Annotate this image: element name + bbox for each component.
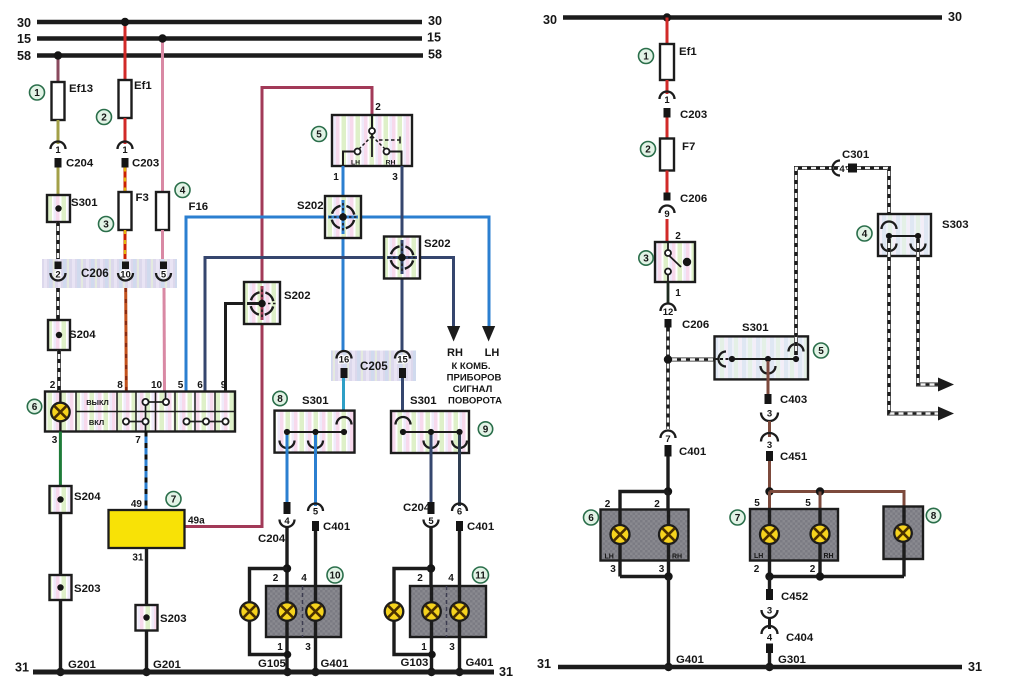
svg-text:5: 5 bbox=[316, 130, 322, 141]
svg-text:2: 2 bbox=[810, 564, 816, 575]
connector C204 pin 1 (arc) bbox=[51, 142, 66, 157]
wire branch to box 6 LH bbox=[620, 492, 668, 510]
turn lamp repeater (box 10) bbox=[306, 602, 325, 621]
svg-text:30: 30 bbox=[17, 16, 31, 30]
connector C451 pin 3 arc bbox=[761, 433, 778, 451]
svg-text:15: 15 bbox=[427, 31, 441, 45]
lamp box 11 bbox=[410, 586, 486, 637]
wire C401 to box 6 (black) bbox=[666, 457, 669, 492]
wire F3 to C206 pin 10 (red-yellow) bbox=[124, 230, 127, 259]
wire S203 to ground G201 (black) bbox=[59, 600, 62, 672]
bus 15 (left diagram) bbox=[17, 31, 441, 47]
junction box 10 pin3 on bus 31 bbox=[311, 668, 319, 676]
svg-text:C203: C203 bbox=[680, 109, 707, 121]
svg-text:3: 3 bbox=[610, 564, 616, 575]
box 7 wire RH bbox=[818, 509, 821, 577]
svg-text:5: 5 bbox=[178, 380, 184, 391]
box 6 wire RH bbox=[667, 510, 670, 577]
bus 31 (right diagram) bbox=[537, 657, 982, 674]
svg-text:C206: C206 bbox=[682, 319, 709, 331]
svg-text:Ef1: Ef1 bbox=[134, 80, 152, 92]
svg-text:1: 1 bbox=[55, 145, 61, 156]
circled 10 bbox=[327, 567, 343, 583]
junction G301 on bus 31 right bbox=[765, 663, 773, 671]
connector C403 square bbox=[765, 394, 808, 406]
svg-text:2: 2 bbox=[55, 270, 60, 281]
svg-text:F3: F3 bbox=[136, 192, 149, 204]
turn lamp RH (box 6) bbox=[659, 525, 678, 544]
svg-text:К КОМБ.: К КОМБ. bbox=[451, 361, 490, 372]
wire C204 to S301 bbox=[57, 168, 60, 196]
C206 pin 10 bbox=[118, 262, 133, 281]
wire C205 pin 15 to S301 (dark blue) bbox=[401, 378, 404, 429]
junction below box 7 RH bbox=[816, 572, 824, 580]
box 11 wire right bbox=[458, 586, 461, 672]
connector C206 square (right lower) bbox=[665, 319, 710, 331]
splice S301 no.9 box bbox=[391, 395, 469, 453]
circled 7 bbox=[166, 492, 181, 507]
svg-text:58: 58 bbox=[17, 49, 31, 63]
wire switch pin 1 to C206 (dark) bbox=[667, 282, 670, 303]
connector C206 pin 9 arc bbox=[660, 206, 675, 220]
junction below box 6 bbox=[664, 572, 672, 580]
box 11 wire left bbox=[430, 586, 433, 672]
svg-text:C204: C204 bbox=[258, 533, 286, 545]
wire down to box 7 RH (brown) bbox=[819, 492, 822, 510]
junction above box 7 LH bbox=[765, 487, 773, 495]
svg-text:C206: C206 bbox=[81, 267, 109, 280]
wire down to box 7 LH (brown) bbox=[768, 492, 771, 510]
turn lamp LH (box 7) bbox=[760, 525, 779, 544]
bus 31 (left diagram) bbox=[15, 661, 513, 680]
connector C451 square bbox=[766, 451, 808, 463]
S301 no.8 internals bbox=[280, 417, 352, 448]
wire S301 middle pin to C403 (brown) bbox=[767, 361, 770, 394]
svg-text:2: 2 bbox=[273, 573, 279, 584]
hazard switch contacts upper row bbox=[142, 392, 169, 419]
splice S301 (column A) bbox=[47, 195, 98, 222]
side marker lamp (box 11 outside) bbox=[385, 602, 404, 621]
svg-text:1: 1 bbox=[277, 642, 283, 653]
svg-text:ПРИБОРОВ: ПРИБОРОВ bbox=[447, 373, 502, 384]
hazard switch S6 box bbox=[45, 392, 235, 432]
junction G201 relay on bus 31 bbox=[142, 668, 150, 676]
box 10 divider bbox=[302, 586, 304, 637]
connector pin 4 arc (box 10 feed) bbox=[280, 516, 295, 527]
ignition switch S3 box bbox=[655, 242, 695, 282]
svg-text:G201: G201 bbox=[68, 659, 97, 671]
svg-text:СИГНАЛ: СИГНАЛ bbox=[453, 384, 493, 395]
wire C452 to C404 (black) bbox=[768, 618, 771, 629]
fuse F3 bbox=[119, 192, 149, 230]
svg-text:RH: RH bbox=[672, 554, 682, 561]
svg-text:S203: S203 bbox=[74, 583, 101, 595]
wire outside lamp loop (box 11) bbox=[394, 569, 432, 655]
side repeater lamp (box 8) bbox=[894, 524, 912, 542]
svg-text:31: 31 bbox=[15, 661, 29, 675]
circled 1 bbox=[30, 85, 45, 100]
svg-text:58: 58 bbox=[428, 48, 442, 62]
svg-text:4: 4 bbox=[767, 633, 773, 644]
connector C401 pin 7 arc bbox=[661, 431, 676, 446]
C206 pin 5 bbox=[156, 262, 171, 281]
svg-text:F16: F16 bbox=[189, 201, 209, 213]
wire box 6 bottom link bbox=[620, 575, 669, 578]
svg-text:C401: C401 bbox=[679, 446, 707, 458]
connector C203 pin (square) bbox=[122, 158, 160, 170]
svg-text:S301: S301 bbox=[742, 322, 769, 334]
wire S303 right pin to arrow (black-white) bbox=[918, 239, 939, 385]
connector C203 square (right) bbox=[664, 108, 708, 121]
svg-text:9: 9 bbox=[664, 209, 669, 220]
splice S204 (upper) bbox=[48, 320, 96, 350]
wire box 7 to C452 (black) bbox=[768, 577, 771, 590]
wire C204 to lamp box 10 (black) bbox=[285, 527, 288, 586]
svg-text:5: 5 bbox=[754, 498, 760, 509]
svg-text:G105: G105 bbox=[258, 658, 287, 670]
junction box 11 pin1 on bus 31 bbox=[427, 668, 435, 676]
wire from bus 58 to fuse Ef13 bbox=[57, 56, 60, 83]
wire relay 49a to maroon riser bbox=[185, 525, 264, 528]
svg-text:ВЫКЛ: ВЫКЛ bbox=[86, 398, 109, 407]
svg-text:7: 7 bbox=[735, 513, 741, 524]
lamp box 7 bbox=[750, 509, 838, 561]
svg-text:C203: C203 bbox=[132, 158, 159, 170]
circled 5 (right) bbox=[814, 343, 829, 358]
svg-text:6: 6 bbox=[197, 380, 203, 391]
svg-text:G301: G301 bbox=[778, 654, 807, 666]
junction node (right column) bbox=[664, 355, 672, 363]
svg-text:30: 30 bbox=[543, 13, 557, 27]
svg-text:C452: C452 bbox=[781, 591, 808, 603]
bus 30 (left diagram) bbox=[17, 14, 442, 30]
svg-text:2: 2 bbox=[375, 102, 381, 113]
wire C404 to ground G301 bbox=[768, 653, 771, 667]
svg-text:31: 31 bbox=[499, 665, 513, 679]
svg-text:ПОВОРОТА: ПОВОРОТА bbox=[448, 396, 502, 407]
splice S202 no.2 symbol bbox=[387, 240, 417, 274]
svg-text:RH: RH bbox=[824, 553, 834, 560]
svg-text:7: 7 bbox=[135, 435, 141, 446]
wire C451 to box 7 junction (brown) bbox=[768, 461, 771, 492]
hazard switch internal grid bbox=[76, 392, 235, 432]
circled 2 bbox=[97, 110, 112, 125]
svg-text:4: 4 bbox=[301, 573, 307, 584]
wire C403 to C451 (brown) bbox=[768, 421, 771, 437]
svg-text:G401: G401 bbox=[676, 654, 705, 666]
svg-text:8: 8 bbox=[931, 511, 937, 522]
svg-text:10: 10 bbox=[151, 380, 163, 391]
junction above box 11 bbox=[427, 564, 435, 572]
svg-text:1: 1 bbox=[675, 288, 681, 299]
turn signal relay K7 (yellow) bbox=[109, 510, 185, 548]
svg-text:9: 9 bbox=[483, 425, 489, 436]
wire C206 to S204 (black-white) bbox=[56, 288, 60, 320]
svg-text:2: 2 bbox=[417, 573, 423, 584]
connector C401 square (right) bbox=[665, 445, 707, 458]
wire C206 pin 10 to hazard switch pin 8 (orange) bbox=[124, 288, 128, 392]
wire S303 left pin to arrow (black-white) bbox=[889, 239, 939, 414]
svg-text:3: 3 bbox=[767, 440, 772, 451]
side marker lamp (box 10 outside) bbox=[240, 602, 259, 621]
svg-text:5: 5 bbox=[161, 270, 167, 281]
svg-text:RH: RH bbox=[386, 160, 396, 167]
svg-text:31: 31 bbox=[537, 657, 551, 671]
svg-text:31: 31 bbox=[968, 660, 982, 674]
svg-text:1: 1 bbox=[421, 642, 427, 653]
svg-text:F7: F7 bbox=[682, 141, 695, 153]
fuse F7 bbox=[660, 139, 695, 171]
svg-text:C204: C204 bbox=[403, 502, 431, 514]
wire switch pin 3 riser (dark blue) bbox=[401, 166, 404, 351]
svg-text:49a: 49a bbox=[188, 516, 205, 527]
wire bus 30 to fuse Ef1 (red) bbox=[666, 18, 669, 45]
arrow upper (right diagram) bbox=[938, 378, 954, 392]
svg-text:3: 3 bbox=[392, 172, 398, 183]
wire hazard pin 7 to relay 49 (blue-black) bbox=[145, 432, 148, 511]
svg-text:15: 15 bbox=[397, 355, 408, 366]
svg-text:49: 49 bbox=[131, 499, 143, 510]
svg-text:1: 1 bbox=[34, 88, 40, 99]
svg-text:C401: C401 bbox=[323, 521, 351, 533]
wire turn-signal switch pin 2 run (maroon) bbox=[262, 88, 372, 527]
svg-text:3: 3 bbox=[103, 220, 109, 231]
connector C206 square (right upper) bbox=[664, 193, 708, 206]
hazard switch contacts lower row bbox=[123, 418, 229, 431]
wire from bus 15 to fuse F16 (pink) bbox=[161, 39, 164, 193]
svg-text:S301: S301 bbox=[302, 395, 329, 407]
wire box 6 to ground G401 bbox=[667, 577, 670, 668]
svg-text:G201: G201 bbox=[153, 659, 182, 671]
junction box 11 loop bottom bbox=[428, 651, 436, 659]
turn signal switch internals bbox=[343, 115, 402, 167]
wire LH branch to instrument cluster (blue) bbox=[186, 217, 489, 392]
splice S202 no.1 symbol bbox=[328, 200, 358, 234]
connector C301 square bbox=[842, 149, 870, 173]
C206 pin 2 bbox=[51, 262, 66, 281]
connector C452 pin 3 arc bbox=[762, 606, 778, 619]
connector C203 pin 1 (arc) bbox=[118, 142, 133, 157]
wire outside lamp loop (box 10) bbox=[250, 569, 288, 655]
splice S303 box bbox=[878, 214, 969, 256]
svg-text:2: 2 bbox=[101, 113, 107, 124]
wire RH branch to instrument cluster (dark blue) bbox=[205, 258, 454, 392]
svg-text:15: 15 bbox=[17, 32, 31, 46]
svg-text:C205: C205 bbox=[360, 360, 388, 373]
svg-text:6: 6 bbox=[32, 402, 38, 413]
junction G201 on bus 31 bbox=[56, 668, 64, 676]
wire junction down to C401 (black-white) bbox=[666, 360, 670, 430]
svg-text:C403: C403 bbox=[780, 394, 807, 406]
lamp box 10 bbox=[266, 586, 341, 637]
svg-text:1: 1 bbox=[122, 145, 128, 156]
svg-text:6: 6 bbox=[457, 507, 462, 518]
fuse Ef1 (left diagram) bbox=[119, 80, 153, 118]
C205 pin 15 bbox=[395, 351, 410, 378]
wire S301-8 middle to C401 (blue) bbox=[314, 435, 317, 506]
turn lamp LH front (box 10) bbox=[278, 602, 297, 621]
splice S202 no.3 bbox=[244, 282, 311, 324]
circled 2 (right) bbox=[641, 142, 656, 157]
circled 5 bbox=[312, 127, 327, 142]
connector block C205 bbox=[331, 351, 416, 382]
splice S301 box (right diagram) bbox=[715, 322, 809, 379]
svg-text:3: 3 bbox=[643, 254, 649, 265]
circled 7 (right) bbox=[730, 510, 745, 525]
svg-text:8: 8 bbox=[117, 380, 123, 391]
svg-text:10: 10 bbox=[329, 571, 341, 582]
wire C206 to ignition switch (red) bbox=[666, 219, 669, 242]
svg-text:C204: C204 bbox=[66, 158, 94, 170]
circled 9 bbox=[478, 422, 492, 436]
splice S202 no.1 bbox=[297, 196, 361, 238]
connector pin 6 arc (box 11 right feed) bbox=[452, 504, 467, 518]
svg-text:2: 2 bbox=[754, 564, 760, 575]
svg-text:3: 3 bbox=[305, 642, 311, 653]
junction box 10 loop bottom bbox=[284, 651, 292, 659]
box 7 wire LH bbox=[768, 509, 771, 577]
fuse F16 bbox=[156, 192, 208, 230]
svg-text:Ef1: Ef1 bbox=[679, 46, 697, 58]
svg-text:16: 16 bbox=[339, 355, 350, 366]
connector block C206 bbox=[42, 259, 177, 288]
wire from bus 30 to fuse Ef1 bbox=[124, 22, 127, 80]
svg-text:C401: C401 bbox=[467, 521, 495, 533]
junction above box 6 bbox=[664, 487, 672, 495]
svg-text:4: 4 bbox=[180, 186, 186, 197]
svg-text:ВКЛ: ВКЛ bbox=[89, 418, 104, 427]
splice S203 (left) bbox=[50, 575, 101, 600]
wire F7 to C206 (red) bbox=[666, 171, 669, 193]
wire C206 pin 5 to hazard switch pin 10 (pink) bbox=[163, 288, 167, 392]
junction above box 10 bbox=[283, 564, 291, 572]
wire box 7/8 bottom link bbox=[770, 575, 905, 578]
svg-text:4: 4 bbox=[839, 164, 845, 175]
connector C206 pin 12 arc bbox=[661, 304, 676, 319]
splice S204 (lower) bbox=[50, 486, 102, 513]
connector C452 square bbox=[766, 589, 808, 603]
svg-text:Ef13: Ef13 bbox=[69, 83, 93, 95]
arrow lower (right diagram) bbox=[938, 407, 954, 421]
connector pin 5 arc (box 11 feed) bbox=[424, 516, 439, 527]
junction on bus 15 bbox=[158, 34, 166, 42]
circled 6 (right) bbox=[584, 510, 599, 525]
wire hazard pin 3 to S204 (green) bbox=[59, 432, 62, 487]
wire Ef1 to C203 (red) bbox=[666, 80, 669, 94]
svg-text:31: 31 bbox=[132, 553, 144, 564]
svg-text:LH: LH bbox=[754, 553, 763, 560]
wire S204 to hazard switch pin 2 (black-white) bbox=[57, 350, 61, 392]
connector C404 square bbox=[766, 644, 773, 654]
svg-text:5: 5 bbox=[818, 346, 824, 357]
lamp box 6 bbox=[601, 510, 689, 561]
turn lamp RH front (box 11) bbox=[422, 602, 441, 621]
connector C204 pin (square) bbox=[55, 158, 94, 170]
svg-text:C301: C301 bbox=[842, 149, 870, 161]
svg-text:S204: S204 bbox=[74, 491, 101, 503]
S303 internals bbox=[882, 222, 926, 251]
fuse Ef13 bbox=[52, 82, 94, 120]
svg-text:S202: S202 bbox=[297, 200, 324, 212]
circled 8 (right) bbox=[926, 508, 940, 522]
junction G401 on bus 31 right bbox=[664, 663, 672, 671]
wire S301-9 right to C401 (dark) bbox=[458, 435, 461, 506]
svg-text:7: 7 bbox=[665, 434, 670, 445]
svg-text:2: 2 bbox=[675, 231, 681, 242]
wire relay 31 to S203 (black) bbox=[145, 548, 148, 605]
box 10 wire right bbox=[314, 586, 317, 672]
svg-text:5: 5 bbox=[805, 498, 811, 509]
connector C203 pin 1 arc (right) bbox=[660, 92, 675, 106]
connector C401 square (box 11 right feed) bbox=[456, 521, 495, 533]
circled 4 bbox=[175, 183, 190, 198]
wire S301 right pin up to C301 (black-white) bbox=[796, 168, 889, 355]
box 8 wire bbox=[902, 507, 905, 577]
connector C301 pin 4 arc bbox=[833, 161, 846, 176]
circled 4 (right) bbox=[857, 226, 872, 241]
svg-text:3: 3 bbox=[449, 642, 455, 653]
svg-text:30: 30 bbox=[428, 14, 442, 28]
junction above box 7 RH bbox=[816, 487, 824, 495]
svg-text:C206: C206 bbox=[680, 193, 707, 205]
svg-text:C404: C404 bbox=[786, 632, 814, 644]
svg-text:LH: LH bbox=[351, 160, 360, 167]
svg-text:1: 1 bbox=[333, 172, 339, 183]
svg-text:9: 9 bbox=[221, 380, 227, 391]
circled 3 bbox=[99, 217, 114, 232]
junction on bus 30 right bbox=[663, 13, 671, 21]
svg-text:1: 1 bbox=[664, 95, 670, 106]
wire C205 pin 16 to S301 (cyan) bbox=[342, 378, 345, 429]
splice S203 (relay column) bbox=[136, 605, 187, 631]
svg-text:3: 3 bbox=[767, 606, 772, 617]
splice S202 no.2 bbox=[384, 237, 451, 279]
arrow RH to cluster bbox=[447, 326, 460, 342]
wire C401 to lamp box 11 (black) bbox=[458, 531, 461, 586]
svg-text:4: 4 bbox=[448, 573, 454, 584]
lamp box 8 bbox=[884, 507, 924, 560]
circled 6 bbox=[27, 399, 41, 413]
wire S202 splice to hazard switch pin 9 (black) bbox=[226, 304, 263, 392]
wire S301-8 left to C204 (blue) bbox=[286, 435, 289, 502]
connector pin 5 arc (box 10 right feed) bbox=[308, 504, 323, 518]
svg-text:S204: S204 bbox=[69, 329, 96, 341]
svg-text:G401: G401 bbox=[321, 658, 350, 670]
wire brown horizontal to box 8 bbox=[770, 492, 905, 507]
ignition switch internals bbox=[665, 242, 691, 282]
svg-text:3: 3 bbox=[659, 564, 665, 575]
wire S301-9 middle to C204 (dark blue) bbox=[430, 435, 433, 502]
svg-text:11: 11 bbox=[475, 571, 486, 582]
hazard switch indicator lamp bbox=[51, 403, 70, 422]
junction on bus 30 bbox=[121, 18, 129, 26]
connector C401 square (box 10 right feed) bbox=[312, 521, 351, 533]
wire C206 to junction (black-white) bbox=[666, 328, 670, 362]
svg-text:2: 2 bbox=[50, 380, 56, 391]
svg-text:3: 3 bbox=[767, 409, 772, 420]
svg-text:S301: S301 bbox=[410, 395, 437, 407]
S301 right internals bbox=[715, 344, 804, 374]
svg-text:S202: S202 bbox=[424, 238, 451, 250]
svg-text:LH: LH bbox=[485, 347, 500, 359]
svg-text:S203: S203 bbox=[160, 613, 187, 625]
circled 8 bbox=[273, 391, 287, 405]
turn lamp RH (box 7) bbox=[811, 525, 830, 544]
box 6 wire LH bbox=[618, 510, 621, 577]
S301 no.9 internals bbox=[396, 417, 468, 448]
connector C204 square (box 11 feed) bbox=[403, 502, 435, 514]
svg-text:5: 5 bbox=[313, 507, 319, 518]
